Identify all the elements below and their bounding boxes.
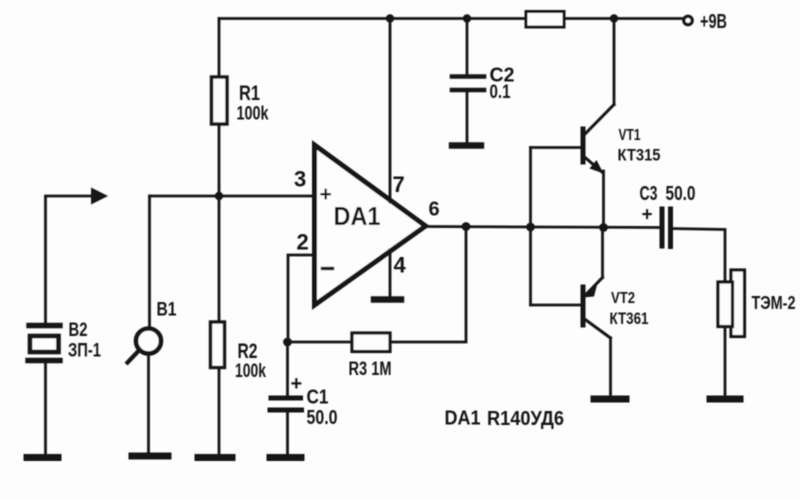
svg-text:КТ361: КТ361 <box>610 310 649 328</box>
wire C2 to ground <box>466 90 469 142</box>
ground (pin 4) <box>374 296 401 302</box>
wire C1 to ground <box>286 410 289 454</box>
capacitor C1 (electrolytic) <box>270 373 338 429</box>
svg-text:R1: R1 <box>239 82 260 105</box>
wire input node down to R2 <box>218 196 221 322</box>
svg-text:+9В: +9В <box>700 11 727 33</box>
wire pin 7 to supply rail <box>389 19 392 203</box>
resistor supply rail (unlabeled) <box>526 12 564 28</box>
node pin7 on rail <box>386 14 394 22</box>
resistor R1 <box>212 77 269 125</box>
wire B1 to ground <box>147 355 150 453</box>
svg-text:VT2: VT2 <box>611 290 635 307</box>
node bases bus on output line <box>526 223 535 232</box>
wire VT1 emitter to output node <box>602 171 605 228</box>
arrow input <box>91 188 108 205</box>
ground (below C2) <box>452 142 481 148</box>
wire R1 top branch <box>218 19 221 78</box>
wire TEM-2 to ground <box>724 327 727 397</box>
wire op-amp output pin 6 <box>426 227 660 228</box>
svg-text:R140УД6: R140УД6 <box>487 408 564 430</box>
wire VT2 base lead <box>531 304 582 307</box>
svg-text:+: + <box>320 183 332 206</box>
svg-text:6: 6 <box>429 199 440 221</box>
ground (below B2) <box>27 454 58 461</box>
svg-text:3: 3 <box>294 167 306 192</box>
svg-text:ТЭМ-2: ТЭМ-2 <box>752 293 796 313</box>
ground (below R2) <box>198 454 232 461</box>
wire VT1 base lead <box>531 146 582 149</box>
transistor VT1 КТ315 (NPN) <box>583 105 661 174</box>
piezo pickup B2 ЗП-1 <box>28 320 101 362</box>
svg-text:100k: 100k <box>235 361 266 382</box>
wire VT1 collector to rail <box>613 19 616 105</box>
ground (below B1) <box>132 453 168 460</box>
node C2 on rail <box>463 14 471 22</box>
svg-text:DA1: DA1 <box>334 203 381 231</box>
svg-text:100k: 100k <box>237 104 269 125</box>
wire VT2 emitter to output node <box>601 228 604 278</box>
node input junction (R1/R2/input) <box>215 192 223 200</box>
capacitor C2 <box>452 65 515 104</box>
svg-text:50.0: 50.0 <box>666 183 696 205</box>
microphone B1 <box>128 300 177 363</box>
svg-text:C3: C3 <box>640 183 658 205</box>
svg-text:DA1: DA1 <box>445 408 481 430</box>
svg-text:B1: B1 <box>157 300 177 321</box>
wire pin 4 to ground <box>389 250 392 296</box>
ground (below TEM-2) <box>710 396 740 403</box>
resistor R2 <box>211 322 267 382</box>
op-amp DA1 <box>294 145 440 305</box>
wire top supply rail <box>219 17 683 20</box>
svg-text:0.1: 0.1 <box>490 82 511 103</box>
svg-text:7: 7 <box>393 172 405 197</box>
svg-text:+: + <box>642 205 653 226</box>
svg-text:+: + <box>291 373 303 395</box>
node feedback junction (pin2/R3/C1) <box>283 338 292 347</box>
wire B2 to ground <box>44 363 47 454</box>
svg-text:B2: B2 <box>69 320 88 341</box>
wire C2 branch from rail <box>466 19 469 75</box>
wire VT2 collector to ground <box>609 338 612 396</box>
svg-text:КТ315: КТ315 <box>618 147 661 165</box>
node feedback tap on output <box>462 222 471 231</box>
wire op-amp pin 2 lead <box>288 255 314 342</box>
svg-text:R2: R2 <box>238 340 258 363</box>
wire junction to R3 <box>288 341 353 344</box>
svg-text:2: 2 <box>297 230 309 255</box>
svg-text:50.0: 50.0 <box>307 407 338 429</box>
wire B1 top to input line <box>148 196 151 328</box>
terminal +9V <box>684 11 727 33</box>
capacitor C3 (output, electrolytic) <box>640 183 696 247</box>
node emitters on output line <box>599 223 608 232</box>
wire C1 from junction down <box>286 342 289 396</box>
wire input arrow branch (B2 to arrow) <box>46 196 93 323</box>
wire feedback down and left to R3 <box>390 227 466 343</box>
ground (below VT2) <box>594 396 626 403</box>
node VT1 collector on rail <box>610 14 618 22</box>
svg-text:VT1: VT1 <box>619 127 641 144</box>
wire R2 to ground <box>218 368 221 455</box>
svg-text:C1: C1 <box>307 387 329 409</box>
wire bases bus vertical <box>529 148 532 306</box>
svg-text:4: 4 <box>394 253 407 278</box>
resistor R3 <box>349 333 392 380</box>
transducer ТЭМ-2 (telephone capsule) <box>718 270 796 337</box>
transistor VT2 КТ361 (PNP) <box>583 278 649 339</box>
wire C3 to TEM-2 <box>671 229 726 283</box>
wire R1 bottom to input node <box>218 124 221 196</box>
svg-text:ЗП-1: ЗП-1 <box>68 340 101 362</box>
svg-text:R3 1M: R3 1M <box>349 358 392 380</box>
ground (below C1) <box>270 454 301 461</box>
wire input node to op-amp pin 3 <box>150 195 315 198</box>
